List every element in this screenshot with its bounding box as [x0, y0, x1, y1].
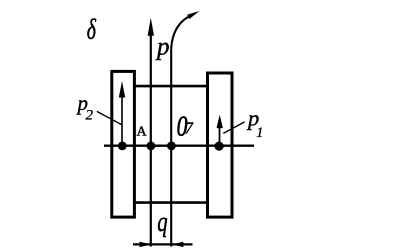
- svg-text:1: 1: [256, 125, 264, 141]
- svg-text:A: A: [137, 125, 148, 140]
- svg-text:2: 2: [86, 108, 94, 124]
- svg-text:p: p: [155, 34, 170, 61]
- svg-text:δ: δ: [87, 14, 97, 46]
- svg-text:7: 7: [185, 118, 194, 137]
- svg-text:q: q: [157, 207, 167, 238]
